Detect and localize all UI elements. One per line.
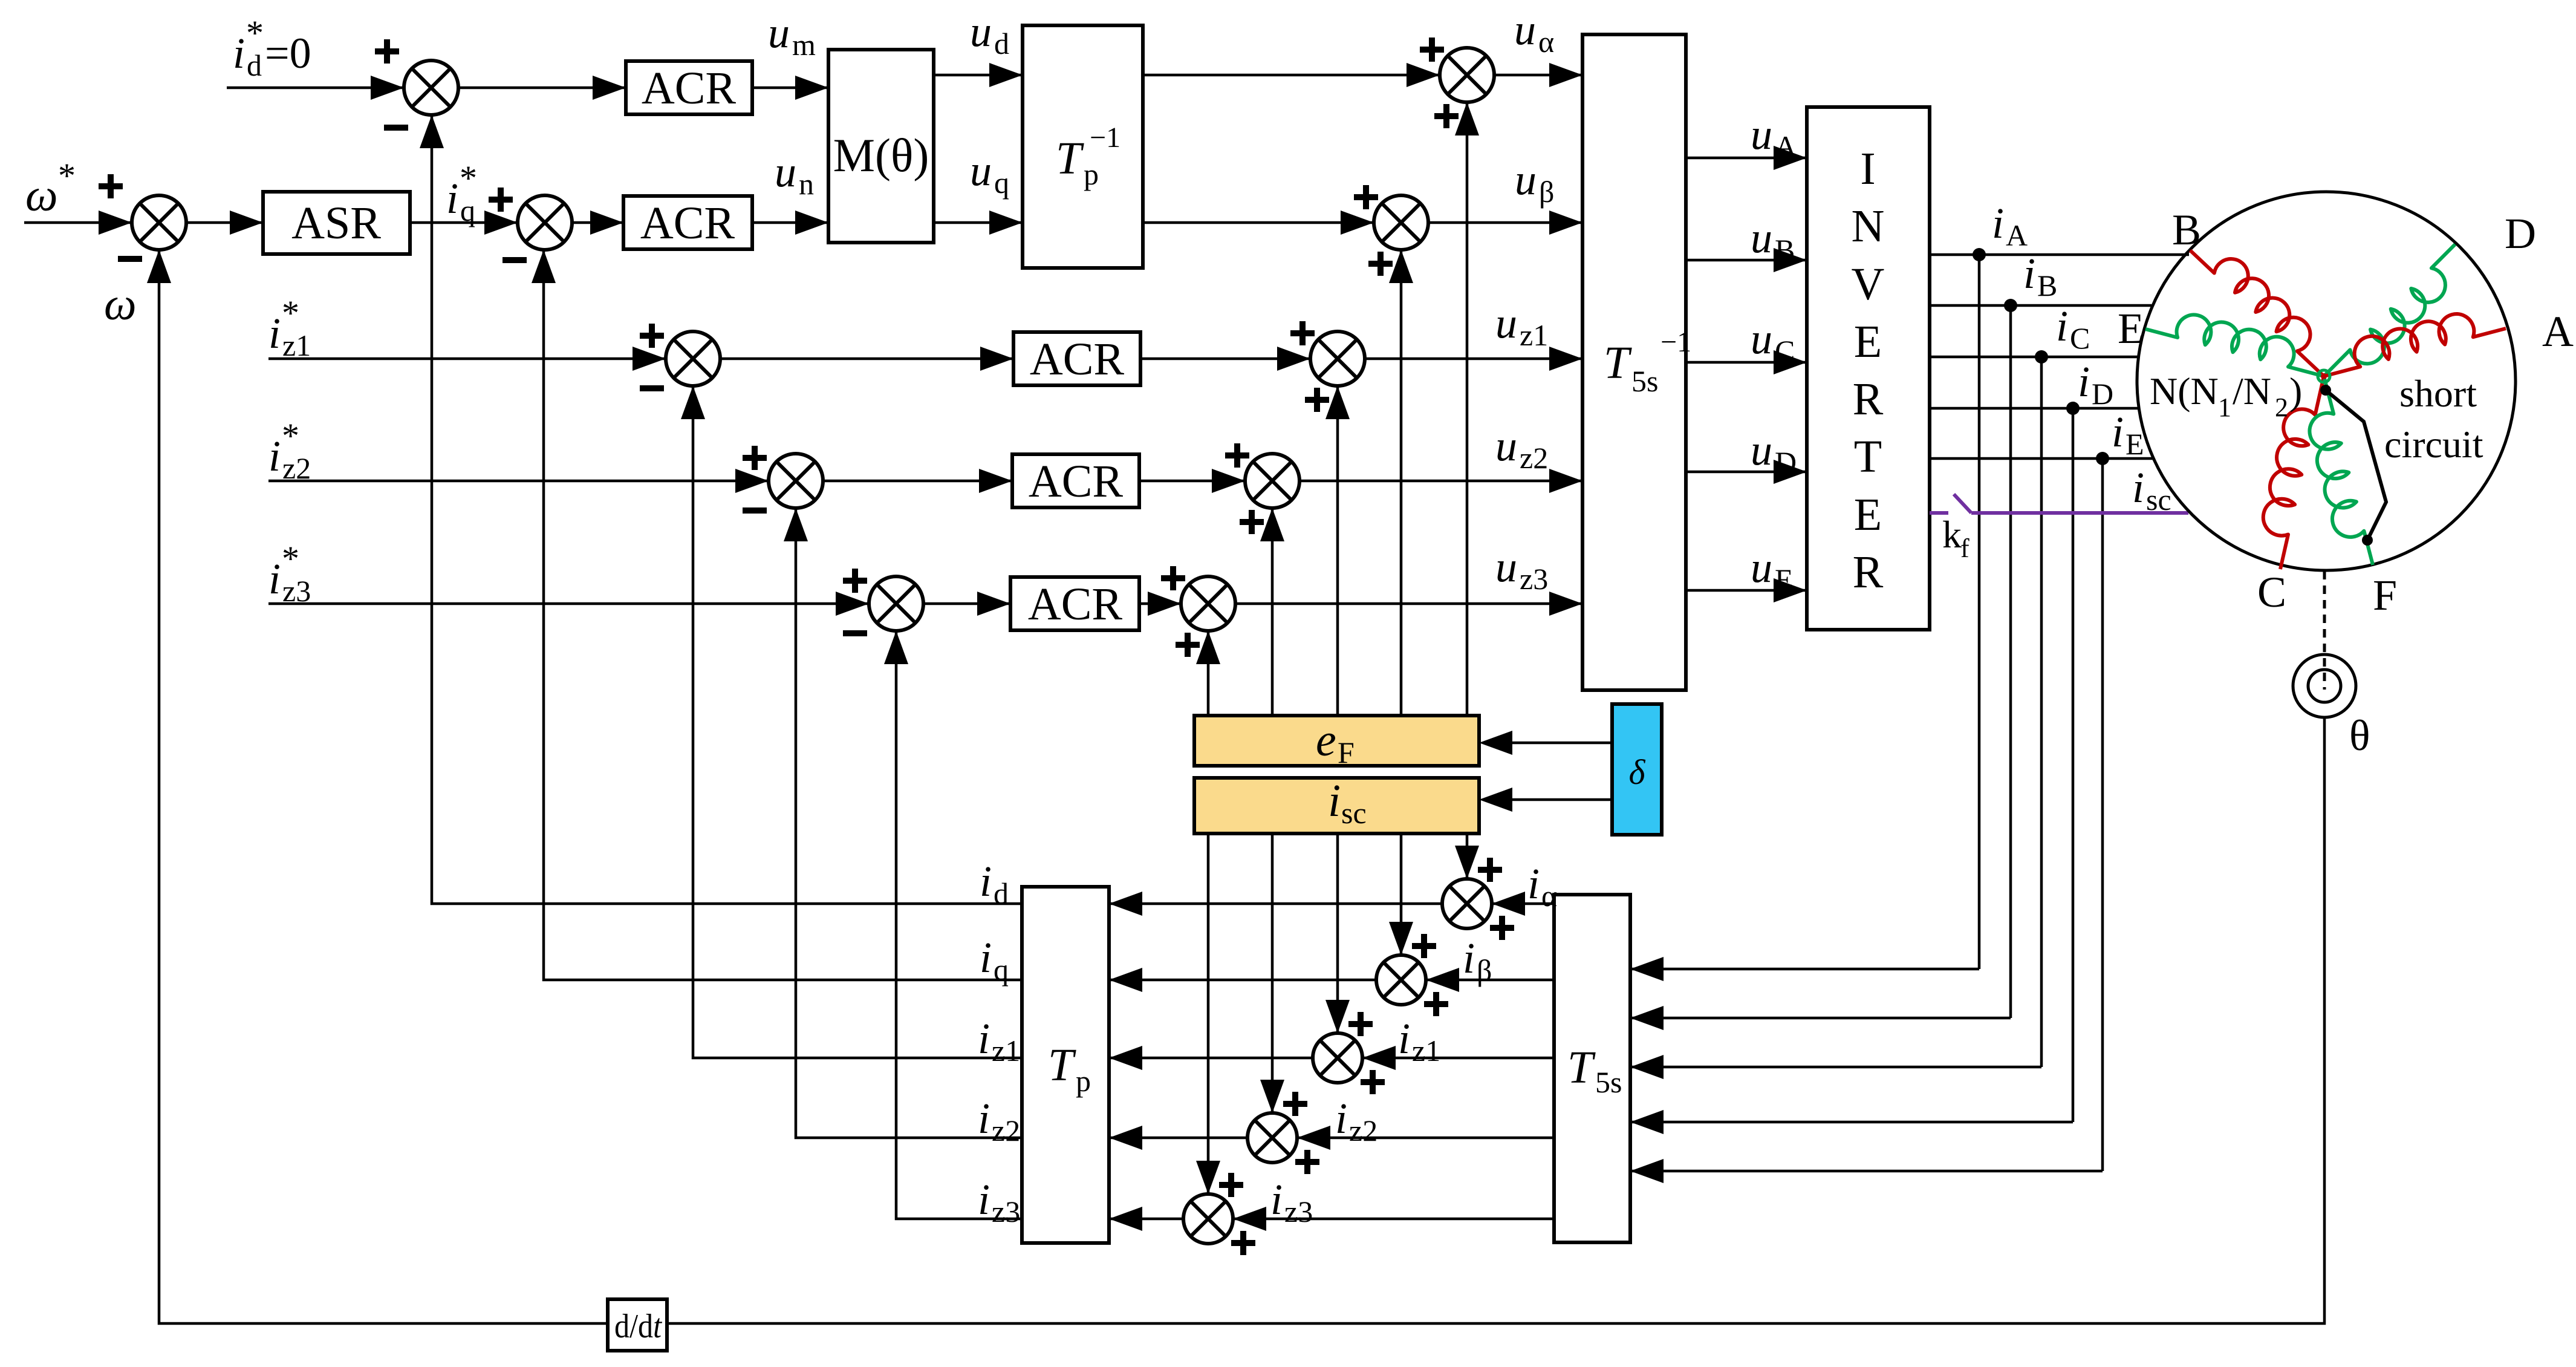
wire S1 to ACR1 [458, 76, 626, 100]
sign +r Siz2 [1295, 1150, 1319, 1174]
label i_A [1992, 199, 2028, 252]
label i_z2 chain [1335, 1094, 1377, 1147]
svg-text:i: i [978, 1175, 990, 1224]
svg-text:sc: sc [1341, 796, 1367, 830]
sign - err y=593 [640, 385, 664, 391]
wire tap vertical iB [2009, 305, 2012, 1018]
svg-text:T: T [1048, 1040, 1076, 1091]
label i_z1 chain [1398, 1014, 1440, 1068]
sign + err y=795 [743, 446, 767, 470]
svg-text:u: u [768, 8, 790, 57]
wire theta bottom run [667, 717, 2324, 1323]
wire Suβ to T5s-1 [1428, 210, 1582, 235]
label u_A [1751, 110, 1797, 163]
wire phase iA [1930, 253, 2189, 256]
block T5s bottom [1554, 895, 1630, 1242]
wire isc column down x=2104 [1260, 834, 1284, 1113]
sign - err y=795 [743, 507, 767, 514]
svg-text:V: V [1852, 259, 1885, 310]
block ASR [263, 192, 410, 254]
sign + Suα [1420, 38, 1444, 62]
svg-text:ACR: ACR [1029, 456, 1124, 507]
short-circuit bracket [2320, 385, 2386, 546]
label ω feedback [104, 279, 137, 330]
wire ASR to Siq [410, 210, 518, 235]
svg-text:C: C [2070, 321, 2090, 355]
wire Tp-1 to Suβ [1143, 210, 1374, 235]
sign +r Siβ [1424, 992, 1448, 1016]
svg-text:q: q [994, 166, 1009, 200]
svg-text:u: u [775, 148, 796, 196]
svg-text:E: E [1854, 316, 1882, 367]
wire M to Tp-1 (u_q) [934, 210, 1023, 235]
block delta [1612, 704, 1662, 835]
wire tap to T5s iE [1630, 1159, 2103, 1183]
svg-text:p: p [1076, 1064, 1091, 1098]
wire Siz1 to Tp [1109, 1046, 1313, 1070]
label E [2118, 304, 2144, 353]
wire tap vertical iA [1978, 255, 1981, 969]
svg-text:B: B [1775, 233, 1795, 267]
label i_z1 left [978, 1014, 1020, 1068]
sign +b Suα [1434, 104, 1459, 128]
wire Siq to ACR2 [572, 210, 623, 235]
svg-text:u: u [1515, 155, 1537, 204]
wire T5s out to Siz1 [1362, 1046, 1554, 1070]
svg-text:/N: /N [2233, 370, 2271, 413]
encoder dashed shaft [2323, 571, 2326, 690]
junction dot iB [2004, 299, 2017, 312]
svg-text:B: B [2037, 269, 2057, 302]
svg-text:u: u [970, 146, 992, 195]
svg-text:ACR: ACR [642, 63, 737, 114]
sign + err y=593 [640, 324, 664, 348]
svg-text:A: A [2542, 307, 2574, 356]
block ACR1 [626, 61, 752, 114]
svg-text:δ: δ [1629, 752, 1646, 792]
svg-text:i: i [978, 1094, 990, 1143]
svg-text:N: N [1852, 201, 1885, 252]
sign +t Siα [1478, 858, 1502, 882]
summing junction Siq [518, 195, 572, 250]
sign +b uz y=795 [1240, 510, 1264, 534]
sign - at S1 [384, 125, 408, 131]
wire i*z row y=593 input [268, 347, 666, 371]
block ACR y=593 [1013, 332, 1140, 385]
wire isc column down x=1998 [1196, 834, 1220, 1194]
sign - at Siq [503, 257, 527, 263]
wire isc column down x=2317 [1389, 834, 1413, 955]
wire tap vertical iD [2072, 408, 2075, 1122]
svg-text:1: 1 [2218, 393, 2231, 422]
svg-text:i: i [2078, 357, 2090, 406]
label i_q left [980, 933, 1009, 987]
label u_C [1751, 315, 1795, 368]
block eF [1194, 715, 1479, 769]
svg-text:i: i [2023, 249, 2035, 298]
wire T5s out to Siz3 [1233, 1207, 1554, 1231]
wire ACR to uz-sum y=795 [1139, 469, 1245, 493]
label ω* [25, 156, 76, 221]
wire i*z row y=998 input [268, 592, 869, 616]
svg-text:i: i [980, 933, 992, 982]
label u_m [768, 8, 816, 62]
label u_E [1751, 543, 1794, 596]
label i*_z3 [268, 539, 311, 608]
svg-text:d: d [994, 876, 1009, 910]
svg-text:D: D [2092, 377, 2113, 411]
wire Sω to ASR [186, 210, 263, 235]
svg-text:d: d [994, 27, 1009, 60]
label u_z2 [1495, 422, 1548, 475]
sign +r Siz3 [1231, 1231, 1255, 1255]
junction dot iA [1973, 248, 1986, 261]
svg-text:z1: z1 [1412, 1034, 1440, 1068]
wire feedback i_z1 [681, 386, 1022, 1058]
sign + err y=998 [843, 569, 867, 593]
wire delta to isc [1479, 788, 1612, 812]
junction dot iE [2096, 452, 2109, 465]
svg-text:5s: 5s [1595, 1065, 1622, 1099]
svg-text:E: E [2118, 304, 2144, 353]
label B [2172, 206, 2201, 254]
node i*d=0 input wire [227, 76, 404, 100]
svg-text:sc: sc [2146, 483, 2171, 517]
wire feedback i_z3 [884, 631, 1022, 1219]
wire err-sum to ACR y=998 [923, 592, 1010, 616]
svg-text:i: i [2112, 408, 2124, 456]
svg-text:ω: ω [25, 170, 58, 221]
svg-text:i: i [1527, 860, 1540, 908]
wire eF column up x=1998 [1196, 631, 1220, 716]
svg-text:q: q [460, 194, 475, 227]
summing junction Siβ [1376, 955, 1426, 1005]
svg-text:u: u [1495, 422, 1517, 470]
winding E [2145, 315, 2324, 376]
svg-text:*: * [282, 539, 299, 578]
summing junction uz y=998 [1181, 576, 1235, 631]
svg-text:u: u [1751, 543, 1772, 592]
svg-text:ACR: ACR [1028, 579, 1123, 630]
wire uz-sum to T5s-1 y=593 [1365, 347, 1582, 371]
winding D [2324, 244, 2455, 376]
wire phase iC [1930, 356, 2138, 359]
sign +b Suβ [1368, 252, 1393, 276]
svg-text:n: n [799, 167, 814, 201]
sign +b uz y=998 [1176, 633, 1200, 657]
svg-text:2: 2 [2275, 393, 2288, 422]
svg-text:d: d [247, 48, 262, 82]
label short [2399, 372, 2477, 415]
label i_D [2078, 357, 2113, 411]
block M(θ) [828, 50, 934, 243]
svg-text:i: i [446, 174, 458, 223]
svg-text:z1: z1 [992, 1034, 1020, 1068]
summing junction Suα [1440, 48, 1494, 102]
sign + uz y=795 [1225, 443, 1249, 468]
summing junction Suβ [1374, 195, 1428, 250]
svg-text:i: i [1270, 1175, 1283, 1224]
svg-text:R: R [1853, 547, 1884, 598]
wire eF column up x=2104 [1260, 508, 1284, 716]
label u_B [1751, 214, 1795, 267]
label i_z3 left [978, 1175, 1020, 1228]
block ACR y=998 [1010, 577, 1139, 630]
wire uC T5s-1 to INVERTER [1686, 350, 1807, 374]
svg-text:z3: z3 [1520, 562, 1548, 596]
svg-text:i: i [268, 432, 281, 480]
label C [2257, 568, 2286, 616]
svg-text:α: α [1538, 25, 1554, 59]
svg-text:θ: θ [2349, 711, 2370, 760]
svg-text:m: m [792, 28, 816, 62]
svg-text:*: * [246, 13, 264, 53]
sign +b uz y=593 [1305, 388, 1329, 412]
label u_β [1515, 155, 1554, 209]
summing junction S1 (i*d) [404, 60, 458, 115]
svg-text:R: R [1853, 374, 1884, 425]
wire ACR to uz-sum y=593 [1140, 347, 1310, 371]
label i_z2 left [978, 1094, 1020, 1147]
wire isc column down x=2212 [1325, 834, 1350, 1033]
svg-text:p: p [1084, 157, 1099, 191]
label u_n [775, 148, 814, 201]
svg-text:k: k [1942, 513, 1962, 556]
summing junction err y=998 [869, 576, 923, 631]
block d/dt [608, 1299, 667, 1351]
wire uD T5s-1 to INVERTER [1686, 460, 1807, 484]
sign +t Siz1 [1348, 1012, 1373, 1036]
svg-text:q: q [994, 953, 1009, 987]
label i_d left [980, 857, 1009, 910]
star point [2318, 370, 2330, 382]
label i_sc [2132, 463, 2171, 517]
svg-text:u: u [1495, 543, 1517, 591]
svg-text:z3: z3 [1284, 1195, 1313, 1228]
label F [2373, 571, 2397, 619]
svg-text:i: i [1328, 775, 1341, 826]
sign - at Sω [118, 256, 142, 262]
svg-text:E: E [1775, 563, 1794, 596]
block isc [1194, 775, 1479, 834]
label k_f [1942, 513, 1969, 563]
wire tap to T5s iB [1630, 1006, 2011, 1030]
block Tp^-1 [1023, 25, 1143, 268]
label i_α chain [1527, 860, 1557, 913]
svg-text:i: i [1335, 1094, 1347, 1143]
label A [2542, 307, 2574, 356]
svg-text:ACR: ACR [640, 198, 735, 249]
svg-text:A: A [1775, 129, 1797, 163]
wire ACR to uz-sum y=998 [1139, 592, 1181, 616]
svg-text:C: C [2257, 568, 2286, 616]
svg-text:u: u [1514, 5, 1536, 54]
svg-text:D: D [1775, 445, 1797, 479]
svg-text:ω: ω [104, 279, 137, 330]
sign +t Siz3 [1219, 1173, 1243, 1197]
summing junction Sω [132, 195, 186, 250]
wire uB T5s-1 to INVERTER [1686, 248, 1807, 272]
svg-text:i: i [1992, 199, 2004, 247]
svg-text:z3: z3 [992, 1195, 1020, 1228]
svg-text:i: i [268, 555, 281, 603]
svg-text:E: E [1854, 489, 1882, 540]
svg-text:u: u [1751, 110, 1772, 158]
wire T5s out to Siz2 [1297, 1126, 1554, 1150]
summing junction Siz1 [1313, 1033, 1362, 1083]
svg-text:short: short [2399, 372, 2477, 415]
svg-text:): ) [2289, 370, 2302, 413]
block ACR y=795 [1012, 454, 1139, 507]
motor stator circle [2137, 192, 2516, 570]
svg-text:E: E [2126, 427, 2144, 461]
svg-text:D: D [2505, 209, 2536, 258]
winding F [2309, 376, 2373, 565]
svg-text:u: u [1751, 426, 1772, 474]
wire eF column up x=2212 [1325, 386, 1350, 716]
label u_z3 [1495, 543, 1548, 596]
svg-text:C: C [1775, 334, 1795, 368]
label i_z3 chain [1270, 1175, 1313, 1228]
svg-text:f: f [1960, 533, 1969, 563]
wire ACR2 to M [752, 210, 828, 235]
label i_E [2112, 408, 2144, 461]
wire Suα to T5s-1 [1494, 63, 1582, 87]
label i*_z1 [268, 293, 311, 362]
svg-text:u: u [1751, 214, 1772, 262]
svg-text:u: u [1751, 315, 1772, 363]
svg-text:N(N: N(N [2150, 370, 2219, 413]
wire Tp-1 to Suα [1143, 63, 1440, 87]
junction dot iD [2066, 402, 2080, 415]
wire phase iB [1930, 304, 2152, 307]
sign + uz y=593 [1290, 321, 1315, 345]
wire tap to T5s iD [1630, 1110, 2073, 1134]
label u_D [1751, 426, 1797, 479]
wire tap vertical iC [2040, 357, 2043, 1067]
svg-text:circuit: circuit [2384, 423, 2483, 466]
wire err-sum to ACR y=593 [720, 347, 1013, 371]
label u_α [1514, 5, 1554, 59]
label circuit [2384, 423, 2483, 466]
sign + at S1 [375, 39, 399, 64]
switch kf purple wire [1930, 494, 2188, 513]
wire Siβ to Tp [1109, 968, 1376, 992]
wire isc column down x=2426 [1455, 834, 1479, 879]
winding A [2324, 314, 2506, 376]
label i_C [2056, 302, 2090, 355]
svg-text:ACR: ACR [1030, 334, 1125, 385]
svg-text:u: u [1495, 299, 1517, 347]
label u_z1 [1495, 299, 1548, 352]
winding C [2263, 376, 2324, 569]
label theta [2349, 711, 2370, 760]
svg-text:I: I [1860, 143, 1875, 194]
svg-text:=0: =0 [265, 29, 311, 77]
sign + uz y=998 [1161, 566, 1185, 590]
label i_B [2023, 249, 2057, 302]
svg-text:*: * [58, 156, 76, 195]
svg-text:F: F [1338, 736, 1355, 769]
label i*_z2 [268, 416, 311, 485]
wire ACR1 to M [752, 76, 828, 100]
summing junction Siz2 [1247, 1113, 1297, 1163]
sign +t Siz2 [1283, 1092, 1307, 1116]
svg-text:F: F [2373, 571, 2397, 619]
sign + Suβ [1354, 185, 1378, 209]
svg-text:*: * [282, 416, 299, 455]
svg-text:β: β [1539, 175, 1554, 209]
wire uA T5s-1 to INVERTER [1686, 146, 1807, 170]
wire feedback i_d [420, 115, 1022, 904]
wire eF column up x=2317 [1389, 250, 1413, 716]
svg-text:i: i [2132, 463, 2144, 512]
svg-text:u: u [970, 7, 992, 56]
svg-text:β: β [1477, 953, 1492, 987]
wire feedback i_z2 [784, 508, 1022, 1138]
wire eF column up x=2426 [1455, 102, 1479, 716]
svg-text:i: i [2056, 302, 2068, 350]
svg-text:z1: z1 [282, 328, 311, 362]
sign + at Sω [99, 174, 123, 198]
sign + at Siq [489, 188, 513, 212]
svg-text:*: * [282, 293, 299, 333]
summing junction Siα [1442, 879, 1492, 928]
svg-text:i: i [1463, 934, 1475, 982]
wire Siz3 to Tp [1109, 1207, 1183, 1231]
wire Siz2 to Tp [1109, 1126, 1247, 1150]
wire phase iD [1930, 407, 2138, 410]
block INVERTER [1807, 107, 1930, 630]
sign - err y=998 [843, 630, 867, 636]
summing junction uz y=795 [1245, 454, 1299, 508]
svg-text:ASR: ASR [291, 198, 381, 249]
block ACR2 [623, 196, 752, 249]
summing junction Siz3 [1183, 1194, 1233, 1244]
summing junction err y=795 [769, 454, 823, 508]
wire tap to T5s iA [1630, 957, 1979, 981]
svg-text:T: T [1604, 338, 1632, 388]
sign +r Siα [1490, 916, 1514, 940]
svg-text:z2: z2 [992, 1114, 1020, 1147]
svg-text:5s: 5s [1631, 364, 1658, 398]
svg-text:z1: z1 [1520, 318, 1548, 352]
wire tap to T5s iC [1630, 1055, 2041, 1079]
svg-text:z2: z2 [1349, 1114, 1377, 1147]
block Tp bottom [1022, 887, 1109, 1243]
svg-text:T: T [1854, 431, 1882, 482]
wire uE T5s-1 to INVERTER [1686, 578, 1807, 602]
svg-text:M(θ): M(θ) [833, 129, 929, 181]
svg-text:B: B [2172, 206, 2201, 254]
wire T5s out to Siβ [1426, 968, 1554, 992]
label u_q [970, 146, 1009, 200]
svg-text:i: i [978, 1014, 990, 1063]
svg-text:−1: −1 [1660, 326, 1691, 358]
wire uz-sum to T5s-1 y=998 [1235, 592, 1582, 616]
summing junction uz y=593 [1310, 331, 1365, 386]
svg-text:i: i [980, 857, 992, 905]
svg-text:α: α [1541, 879, 1557, 913]
label u_d [970, 7, 1009, 60]
wire feedback i_q [532, 250, 1022, 980]
sign +t Siβ [1412, 934, 1436, 958]
wire T5s out to Siα [1492, 892, 1554, 916]
sign +r Siz1 [1361, 1070, 1385, 1094]
wire ω* input [24, 210, 132, 235]
wire delta to eF [1479, 731, 1612, 755]
svg-text:z2: z2 [1520, 441, 1548, 475]
